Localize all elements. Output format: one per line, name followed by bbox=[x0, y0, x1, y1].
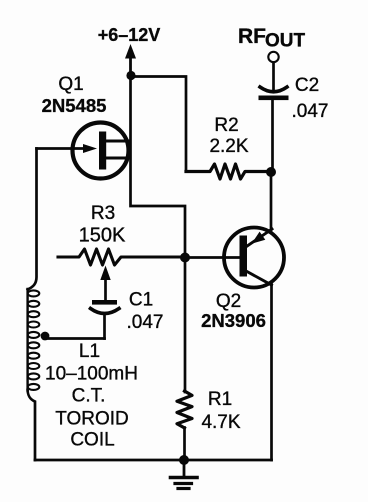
svg-text:Q2: Q2 bbox=[216, 291, 241, 312]
svg-text:.047: .047 bbox=[292, 101, 329, 122]
svg-text:OUT: OUT bbox=[265, 31, 306, 52]
resistor R3 (with wiper arrow) bbox=[58, 249, 181, 300]
ground node bbox=[179, 455, 189, 465]
svg-text:TOROID: TOROID bbox=[55, 409, 129, 430]
capacitor C1 bbox=[91, 300, 120, 339]
wire node A to R2 feed (right then down) bbox=[131, 77, 186, 172]
transistor Q2 (PNP) bbox=[224, 228, 284, 288]
label RF OUT bbox=[238, 25, 306, 52]
svg-text:C1: C1 bbox=[129, 290, 153, 311]
svg-text:R3: R3 bbox=[91, 203, 115, 224]
svg-text:4.7K: 4.7K bbox=[201, 412, 240, 433]
svg-text:+6–12V: +6–12V bbox=[98, 25, 161, 45]
bottom wire (ground rail) bbox=[35, 459, 272, 462]
svg-text:2N3906: 2N3906 bbox=[201, 310, 266, 331]
svg-text:R1: R1 bbox=[208, 389, 232, 410]
svg-text:C2: C2 bbox=[295, 75, 319, 96]
node B2 (base / R3 / R1 junction) bbox=[180, 253, 190, 263]
wire Q1 gate bbox=[37, 147, 89, 150]
wire Q2 base bbox=[189, 256, 240, 259]
ground symbol bbox=[171, 460, 198, 489]
svg-text:2.2K: 2.2K bbox=[209, 136, 248, 157]
svg-text:R2: R2 bbox=[214, 115, 238, 136]
wire C1 to L1 center tap bbox=[46, 337, 105, 340]
svg-text:COIL: COIL bbox=[70, 430, 114, 451]
resistor R1 bbox=[177, 261, 192, 460]
capacitor C2 bbox=[259, 63, 289, 169]
wire node A down to Q1 drain and Q1 source to node B2 bbox=[131, 76, 186, 254]
RF output terminal bbox=[268, 52, 278, 62]
svg-text:Q1: Q1 bbox=[58, 74, 83, 95]
svg-text:RF: RF bbox=[238, 25, 266, 48]
svg-text:L1: L1 bbox=[79, 341, 100, 362]
wire Q2 emitter to node B bbox=[270, 176, 273, 231]
node A (supply junction) bbox=[126, 71, 135, 80]
transistor Q1 (JFET) bbox=[73, 123, 131, 179]
svg-text:10–100mH: 10–100mH bbox=[45, 364, 138, 385]
svg-text:C.T.: C.T. bbox=[72, 386, 106, 407]
power terminal +6-12V arrow bbox=[125, 44, 136, 76]
inductor L1 (toroid coil) bbox=[28, 149, 40, 461]
resistor R2 bbox=[186, 164, 267, 179]
node L1 center tap bbox=[41, 332, 50, 341]
svg-text:150K: 150K bbox=[79, 225, 126, 247]
svg-text:.047: .047 bbox=[127, 312, 164, 333]
node B (R2 / C2 / Q2 emitter junction) bbox=[266, 167, 276, 177]
svg-text:2N5485: 2N5485 bbox=[42, 95, 107, 116]
wire Q2 collector down bbox=[270, 284, 273, 460]
